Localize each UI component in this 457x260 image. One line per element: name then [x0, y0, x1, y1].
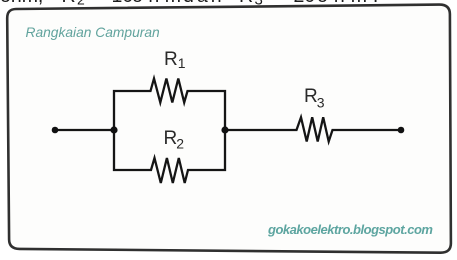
svg-text:ohm,: ohm, [0, 0, 43, 7]
svg-text:Rangkaian Campuran: Rangkaian Campuran [26, 25, 161, 40]
svg-text:2: 2 [77, 0, 85, 7]
svg-text:3: 3 [317, 95, 325, 111]
svg-text:R: R [304, 86, 318, 107]
svg-text:10: 10 [112, 0, 134, 7]
svg-text:2: 2 [176, 136, 184, 152]
svg-text:gokakoelektro.blogspot.com: gokakoelektro.blogspot.com [267, 222, 433, 237]
svg-text:R: R [164, 128, 178, 149]
svg-text:1: 1 [178, 55, 186, 71]
svg-text:R: R [164, 49, 178, 70]
svg-text:R: R [62, 0, 76, 7]
